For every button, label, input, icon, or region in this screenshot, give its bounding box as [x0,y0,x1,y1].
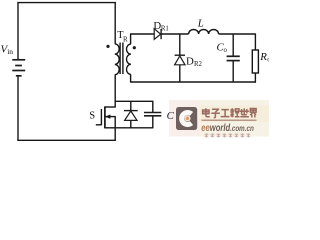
wire winding-bottom to drain [114,75,116,107]
watermark underline [202,119,257,121]
watermark title strip [200,106,270,123]
wire Co branch [232,34,234,82]
transformer core [120,43,123,75]
wire top rail primary [17,2,116,4]
diode DR1 [154,29,161,40]
gate lead [96,124,102,126]
capacitor Co [227,56,240,60]
watermark title cheng [230,108,239,117]
capacitor C [144,113,161,116]
svg-text:o: o [267,57,269,64]
wire snubber bottom (source rail) [105,127,153,129]
inductor L [189,30,219,34]
body lead with arrow [105,116,116,118]
svg-text:C: C [167,110,175,122]
svg-text:D: D [186,55,194,67]
wire cap C branch [152,101,154,129]
snubber rails [105,101,153,129]
resistor RL [252,50,258,73]
arrow of MOSFET [105,115,111,119]
svg-text:R1: R1 [161,26,169,33]
svg-text:R: R [259,51,267,63]
watermark title dian [203,108,210,117]
wire snubber top [115,100,153,102]
channel bar [104,106,106,128]
watermark title zi [211,109,220,117]
wire bottom primary [17,139,116,141]
watermark title gong [221,110,230,117]
watermark caption [205,134,251,138]
diode DR2 [175,55,185,65]
wire secondary bottom rail [130,81,256,83]
svg-text:R: R [123,35,128,43]
phase dot primary [106,45,109,48]
wire left rail top [17,2,19,59]
svg-text:L: L [197,18,204,30]
svg-text:eeworld.com.cn: eeworld.com.cn [201,123,254,134]
drain lead [105,106,116,108]
diode D (body) [124,111,138,121]
wire secondary top [130,34,132,82]
wire source vertical [114,117,116,141]
transistor S (MOSFET) [96,106,116,128]
wire primary vertical (drain side) [114,2,116,44]
svg-text:S: S [89,111,95,122]
svg-text:o: o [224,47,228,54]
gate bar [100,109,102,125]
transformer TR secondary winding [126,44,130,74]
wire inductor to RL corner [219,33,256,35]
watermark logo [176,107,197,130]
wire RL drop [254,33,256,50]
svg-text:R2: R2 [194,61,203,68]
watermark title shi [240,108,249,116]
wire DR2 branch [179,34,181,82]
wire body-diode branch [130,101,132,128]
wire DR1 cathode to inductor [161,33,189,35]
transformer TR primary winding [115,44,119,75]
watermark background [169,100,200,137]
watermark title jie [250,109,256,118]
phase dot secondary [133,46,136,49]
battery Vin [12,60,25,76]
svg-text:in: in [7,47,13,56]
wire left rail bottom [17,76,19,141]
